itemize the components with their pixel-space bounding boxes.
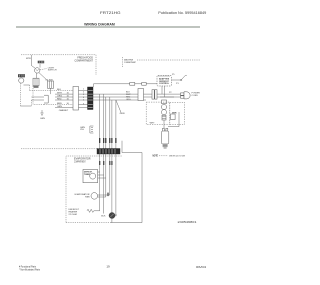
overload hatch <box>163 144 168 148</box>
ground symbol <box>41 110 43 113</box>
wire lamp down <box>36 73 38 78</box>
timer wires <box>98 171 100 173</box>
svg-text:COMPARTMENT: COMPARTMENT <box>74 161 86 164</box>
svg-text:22 OHM: 22 OHM <box>69 214 77 216</box>
svg-text:FAN: FAN <box>85 195 90 198</box>
wire lamp to top border <box>31 55 35 69</box>
light switch leader <box>40 69 47 70</box>
svg-text:* Non-Illustrated Parts: * Non-Illustrated Parts <box>19 268 41 271</box>
connector block P2 <box>88 87 94 110</box>
svg-text:WHT: WHT <box>150 122 156 124</box>
svg-text:ORG: ORG <box>57 95 62 97</box>
socket terminal <box>34 86 39 88</box>
defrost limit thermostat <box>109 213 115 219</box>
wire to compressor <box>163 120 165 128</box>
svg-text:19: 19 <box>106 265 110 269</box>
fresh food compartment dashed border <box>21 55 96 75</box>
svg-text:BLK: BLK <box>57 89 62 91</box>
fan motor M2 <box>19 78 24 83</box>
wire L to right drop <box>122 141 142 223</box>
header rule <box>16 26 200 28</box>
bus labels right of connector <box>126 91 131 101</box>
lamp leader <box>39 64 41 68</box>
defrost switch P1 <box>172 79 182 81</box>
svg-text:06/04: 06/04 <box>196 265 206 269</box>
lamp socket <box>33 78 39 85</box>
vertical harness wires <box>100 94 116 148</box>
freezer compartment dashed border <box>66 156 122 223</box>
ADC output wires <box>161 86 163 94</box>
svg-text:COMPARTMENT: COMPARTMENT <box>124 61 136 64</box>
machine compartment dashed edge <box>122 57 124 67</box>
svg-text:MTR: MTR <box>172 113 177 115</box>
wire lamp to switch <box>39 73 48 81</box>
svg-text:Publication No. 5995416849: Publication No. 5995416849 <box>158 11 206 15</box>
bus wire gauge labels <box>67 93 70 105</box>
inline fuse F1 <box>130 83 135 86</box>
wire switch drop <box>50 88 52 94</box>
svg-text:GRN: GRN <box>40 118 45 120</box>
wire dashed riser <box>30 100 32 106</box>
defrost timer T1 <box>83 170 98 183</box>
svg-text:BRN: BRN <box>57 103 62 105</box>
fan motor label <box>18 74 25 77</box>
bottom return wire <box>110 222 142 224</box>
svg-text:COMPARTMENT: COMPARTMENT <box>74 60 93 63</box>
ice maker wire <box>168 112 179 127</box>
harness wire labels <box>99 138 117 143</box>
svg-text:BLK: BLK <box>101 215 106 217</box>
svg-text:GRN: GRN <box>120 113 125 115</box>
wire socket dashed drop <box>33 86 44 105</box>
freezer vertical wires <box>100 154 116 216</box>
wire bottom U <box>20 105 31 107</box>
wire pair left <box>31 96 44 98</box>
compressor relay capsule <box>162 128 164 134</box>
wire block to ADC <box>94 83 161 85</box>
svg-text:WIRING DIAGRAM: WIRING DIAGRAM <box>84 23 115 27</box>
freezer wire labels <box>99 161 112 196</box>
svg-text:SWITCH: SWITCH <box>48 70 57 72</box>
svg-text:MTR: MTR <box>26 58 31 60</box>
svg-text:240546801: 240546801 <box>178 220 197 224</box>
terminal bracket <box>44 95 48 103</box>
svg-text:RED: RED <box>57 98 62 100</box>
ice maker inner part <box>171 114 176 120</box>
harness branch label <box>116 100 121 113</box>
connector pin labels <box>83 88 85 105</box>
svg-text:GRN: GRN <box>57 106 62 108</box>
lamp L1 label <box>38 61 45 64</box>
wire left dashed drop <box>19 83 21 106</box>
light switch body <box>48 81 54 88</box>
wire bus lines <box>30 89 74 91</box>
inline connector right 1 <box>138 89 144 101</box>
svg-text:MACHINE: MACHINE <box>124 58 133 61</box>
evaporator fan motor M1 <box>91 193 98 200</box>
svg-text:CONTROL: CONTROL <box>159 83 170 85</box>
thermostat stub <box>115 214 117 216</box>
ice maker dashed box <box>170 102 185 124</box>
inline fuse F2 <box>142 83 147 86</box>
svg-text:WHT: WHT <box>57 93 63 95</box>
adaptive defrost control U1 <box>157 76 172 87</box>
inline connector J1 <box>73 87 79 111</box>
inline connector right 2 <box>152 90 154 99</box>
harness connector block <box>97 149 120 155</box>
wire motor to bus <box>24 84 30 86</box>
fan wires <box>98 194 110 196</box>
svg-text:TIMER: TIMER <box>84 174 91 176</box>
machine compartment top dashed border <box>137 59 200 61</box>
power cord plug <box>181 93 185 95</box>
svg-text:CABINET: CABINET <box>59 109 69 112</box>
defrost section dashed box <box>146 102 170 124</box>
svg-text:NOTE: NOTE <box>153 155 159 158</box>
freezer bottom dashed <box>66 222 110 224</box>
defrost thermostat stack <box>162 100 167 104</box>
svg-text:CORD: CORD <box>192 95 199 97</box>
svg-text:FRT21HG: FRT21HG <box>100 11 121 15</box>
power cord wires <box>160 93 181 95</box>
heater wires <box>94 210 100 212</box>
svg-text:ORG: ORG <box>126 99 131 101</box>
lamp L1 <box>35 68 40 73</box>
long dashed divider <box>21 148 100 150</box>
defrost limit hatch <box>162 115 166 120</box>
svg-text:DENOTES 120 VOLT LINE: DENOTES 120 VOLT LINE <box>169 156 185 158</box>
wire thermostat to bottom <box>111 218 113 222</box>
